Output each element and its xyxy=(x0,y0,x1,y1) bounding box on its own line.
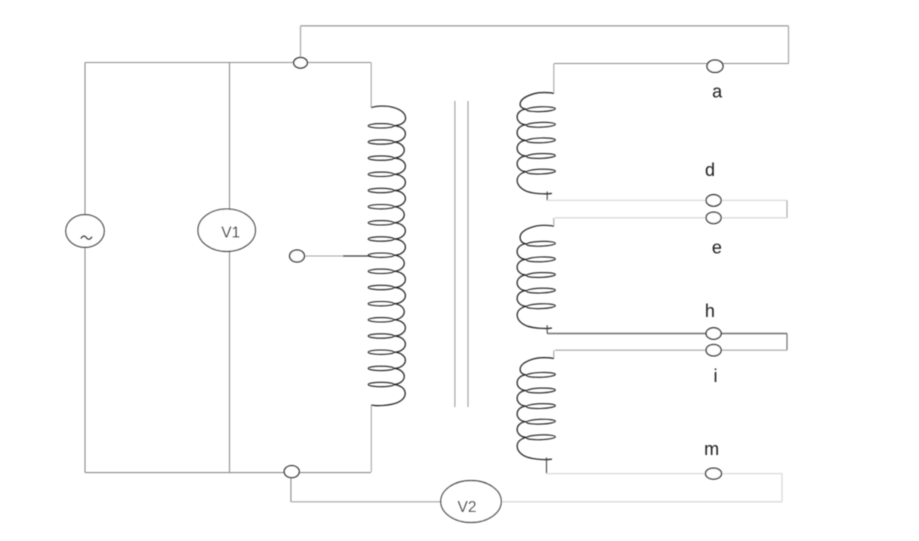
svg-text:d: d xyxy=(705,160,715,180)
svg-text:a: a xyxy=(712,82,723,102)
svg-text:e: e xyxy=(712,238,722,258)
svg-text:V2: V2 xyxy=(458,499,477,516)
svg-text:m: m xyxy=(704,439,719,459)
svg-text:h: h xyxy=(705,301,715,321)
svg-text:V1: V1 xyxy=(221,225,240,242)
svg-text:i: i xyxy=(714,366,718,386)
